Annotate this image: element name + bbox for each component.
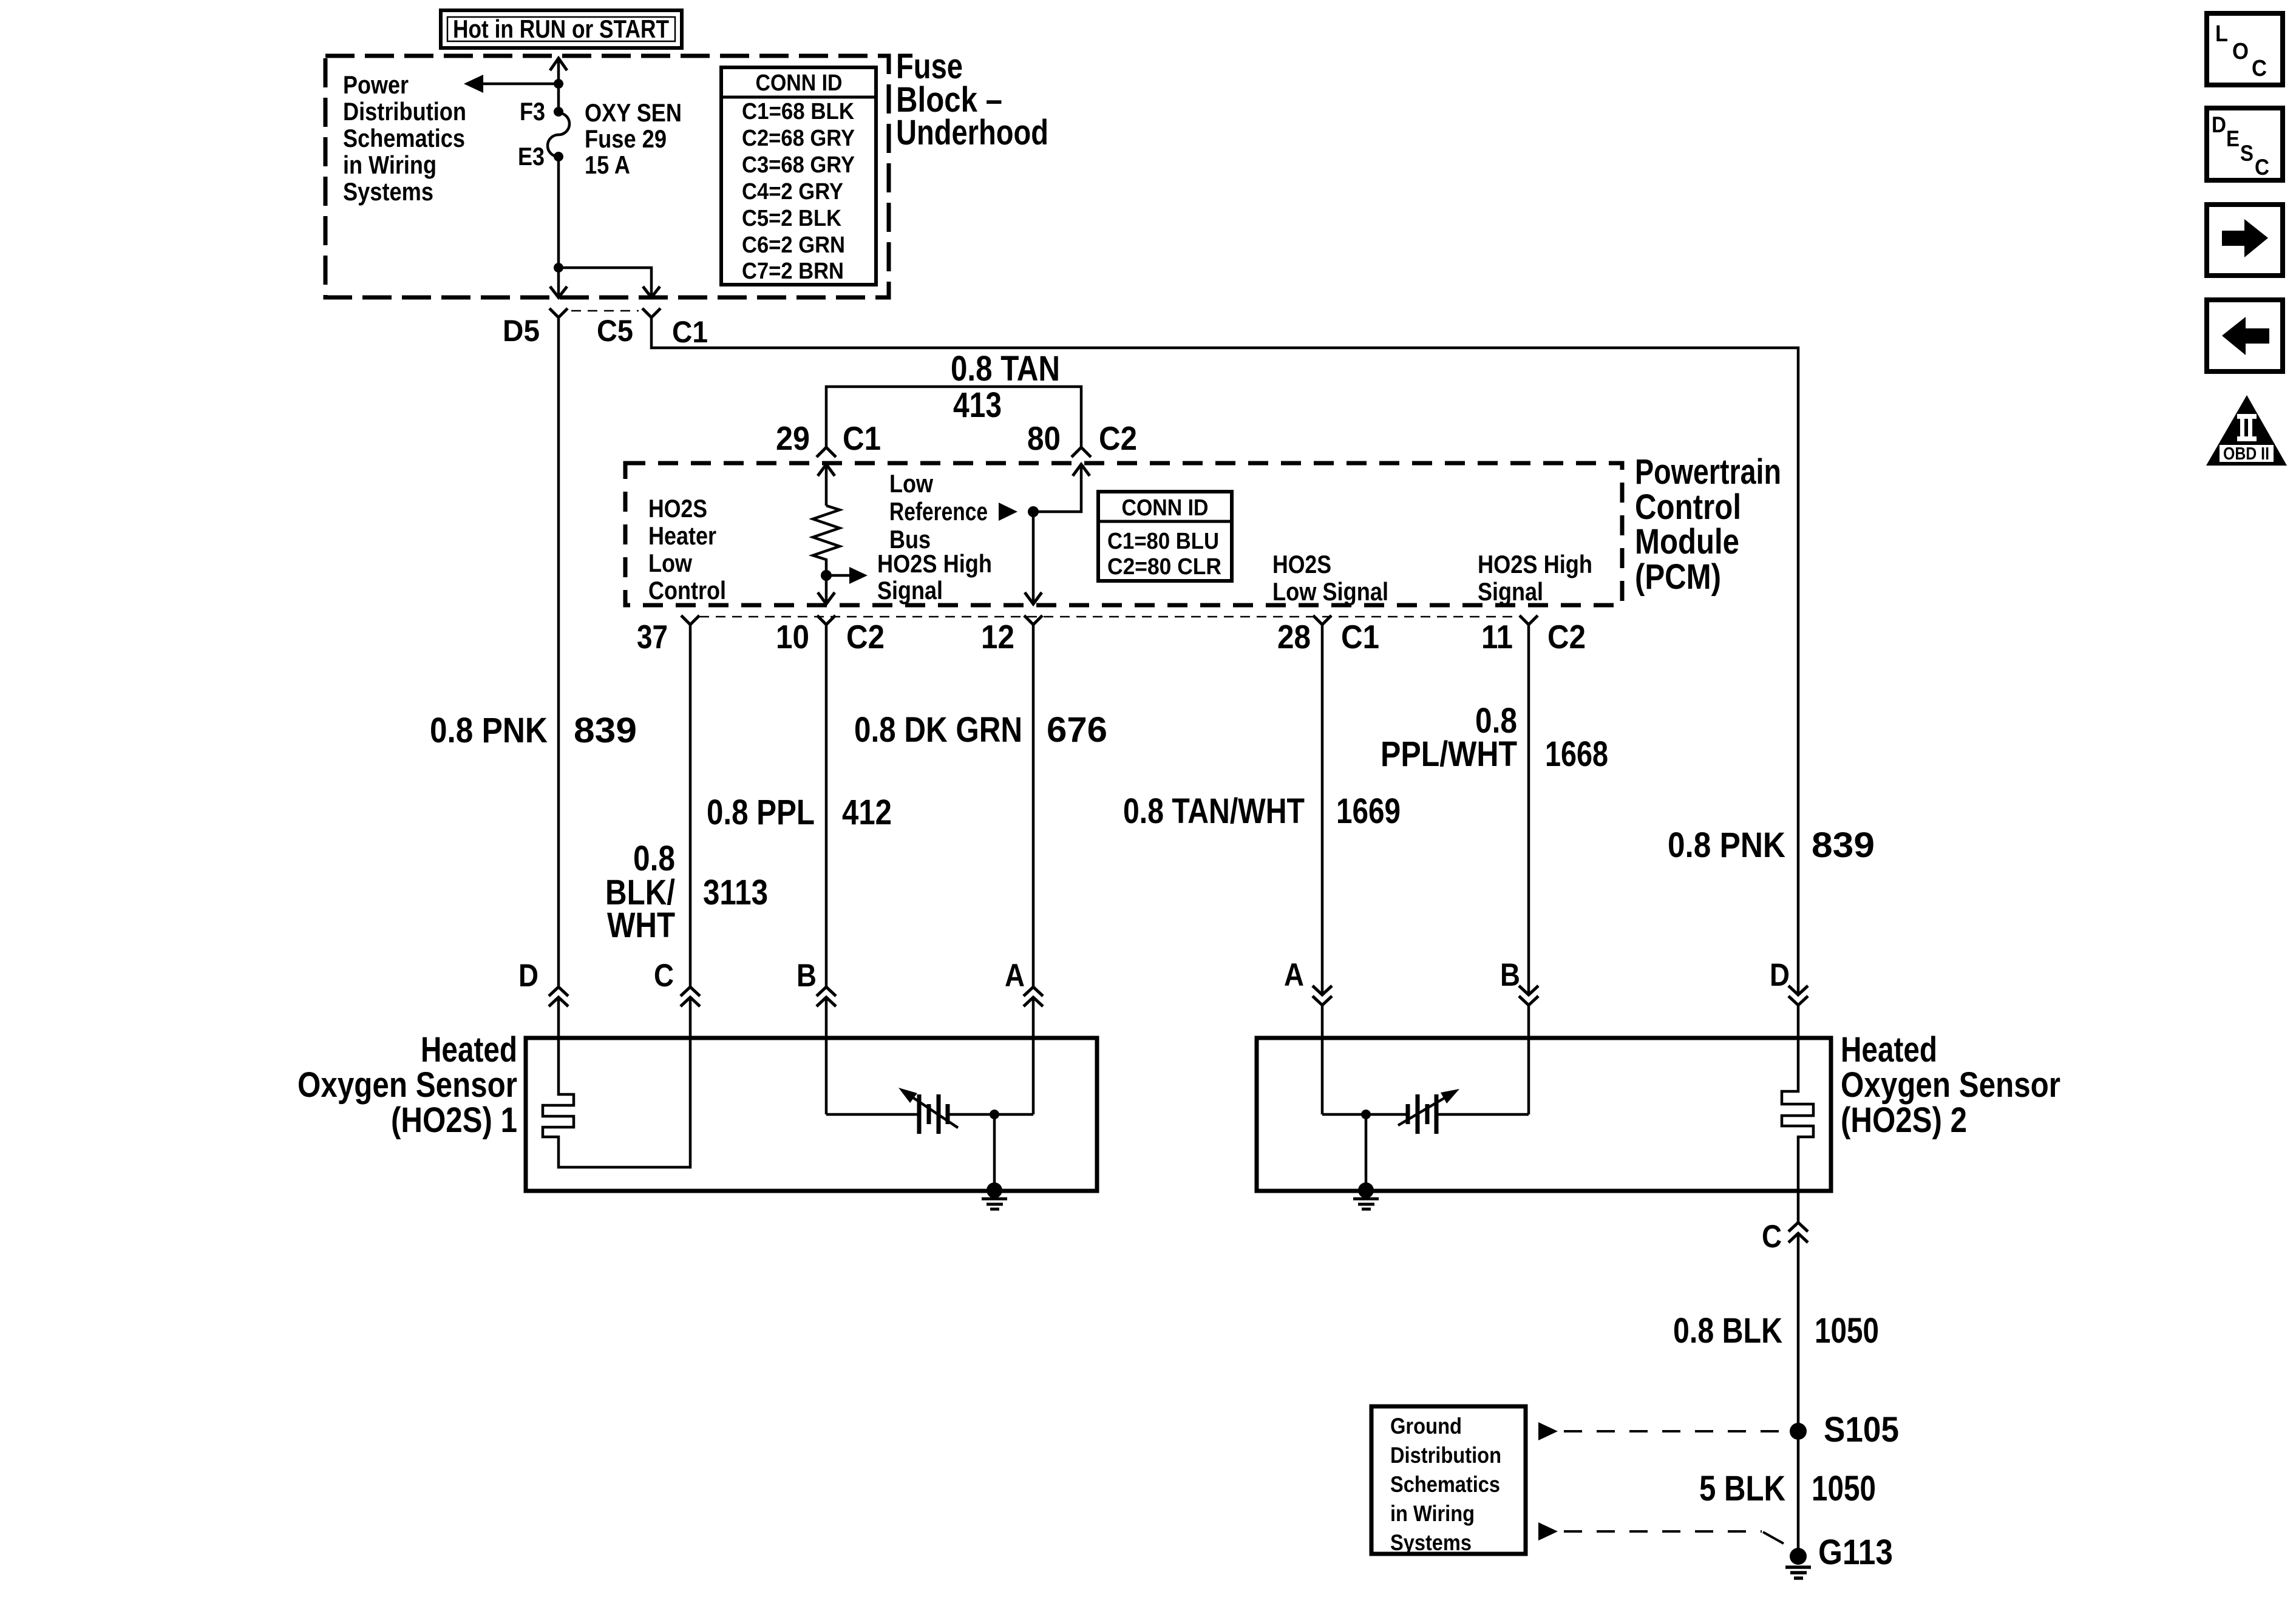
inline connector D (HO2S1)	[549, 987, 568, 1038]
svg-text:B: B	[1500, 957, 1520, 993]
wire HO2S2 pin C down	[1797, 1191, 1800, 1222]
svg-text:Systems: Systems	[343, 177, 433, 206]
HO2S 1 box	[526, 1038, 1097, 1191]
svg-text:37: 37	[637, 618, 668, 656]
svg-text:1050: 1050	[1812, 1469, 1876, 1508]
connector pin 12	[1024, 615, 1042, 625]
svg-text:(HO2S) 1: (HO2S) 1	[391, 1100, 517, 1140]
svg-text:Heated: Heated	[1841, 1030, 1937, 1070]
arrow Low Reference Bus	[999, 503, 1017, 521]
dashed link to S105	[1564, 1430, 1788, 1432]
connector D5 (fuse block)	[549, 308, 568, 317]
svg-text:1050: 1050	[1815, 1311, 1879, 1351]
icon arrow right	[2207, 205, 2283, 276]
wire junction to pin 12	[1032, 512, 1035, 604]
wire 0.8 DK GRN 676 (pin 12 to HO2S1 pin A)	[1032, 625, 1035, 987]
inline connector A (HO2S2)	[1313, 986, 1332, 1038]
svg-text:Distribution: Distribution	[343, 97, 466, 126]
svg-text:676: 676	[1047, 710, 1107, 750]
wire resistor to pin 10	[825, 575, 828, 604]
inline connector D (HO2S2)	[1788, 986, 1808, 1038]
svg-text:11: 11	[1481, 618, 1513, 656]
wire junction to pin 80	[1033, 464, 1081, 512]
arrow left to power distribution	[464, 75, 483, 93]
arrow up to Hot in RUN feed	[550, 58, 567, 70]
ground (HO2S2)	[1353, 1182, 1379, 1209]
svg-text:CONN ID: CONN ID	[1122, 495, 1209, 521]
svg-text:C: C	[654, 958, 674, 994]
fuse F29 OXY SEN 15A (S-curve)	[548, 113, 569, 157]
HO2S 2 box	[1257, 1038, 1831, 1191]
wire 0.8 PPL 412 (pin 10 to HO2S1 pin B)	[825, 625, 828, 987]
junction sensing element (HO2S2)	[1361, 1110, 1371, 1119]
junction at resistor bottom	[821, 570, 832, 581]
connector pin 11 C2	[1520, 615, 1538, 625]
svg-text:Powertrain: Powertrain	[1635, 452, 1781, 492]
variable arrow (HO2S2)	[1398, 1089, 1459, 1125]
svg-text:D5: D5	[503, 314, 540, 348]
svg-text:0.8 DK GRN: 0.8 DK GRN	[854, 710, 1022, 750]
arrow into PCM at pin 29	[818, 464, 835, 506]
svg-text:80: 80	[1027, 419, 1061, 457]
svg-text:HO2S: HO2S	[648, 494, 707, 523]
wire 0.8 PPL/WHT 1668 (pin 11 to HO2S2 pin B)	[1527, 625, 1530, 995]
terminal F3	[554, 107, 563, 117]
connector pin 28 C1	[1313, 615, 1331, 625]
node low reference junction	[1028, 506, 1039, 517]
inline connector C (HO2S2)	[1788, 1222, 1808, 1242]
splice S105	[1790, 1423, 1807, 1440]
svg-text:C1: C1	[672, 315, 708, 349]
svg-text:E3: E3	[518, 142, 545, 171]
svg-text:10: 10	[776, 618, 809, 656]
svg-text:C5=2 BLK: C5=2 BLK	[742, 206, 842, 231]
svg-text:C: C	[2252, 56, 2267, 81]
svg-text:Signal: Signal	[877, 576, 943, 605]
svg-text:C3=68 GRY: C3=68 GRY	[742, 152, 855, 178]
label 0.8 BLK/ WHT	[605, 839, 675, 945]
svg-text:12: 12	[981, 618, 1014, 656]
svg-text:Oxygen Sensor: Oxygen Sensor	[297, 1065, 517, 1105]
svg-text:HO2S: HO2S	[1272, 550, 1331, 578]
junction sensing element (HO2S1)	[990, 1110, 999, 1119]
svg-text:D: D	[518, 958, 538, 994]
svg-text:Heater: Heater	[648, 521, 716, 550]
label 0.8 PPL/WHT	[1381, 701, 1517, 774]
connector at pin 80 C2	[1072, 447, 1091, 457]
svg-text:Schematics: Schematics	[1390, 1472, 1500, 1497]
svg-text:OXY SEN: OXY SEN	[585, 98, 682, 127]
svg-text:D: D	[1770, 957, 1790, 993]
terminal E3	[554, 152, 563, 161]
inline connector B (HO2S1)	[817, 987, 836, 1038]
arrow into D5	[550, 286, 567, 297]
wire 0.8 PNK 839 right (C1 to HO2S 2 pin D)	[651, 317, 1798, 995]
sensing element plates (HO2S1)	[919, 1094, 948, 1134]
svg-text:28: 28	[1277, 618, 1311, 656]
svg-text:PPL/WHT: PPL/WHT	[1381, 734, 1517, 774]
wire loop 0.8 TAN 413 (pin 29 C1 to pin 80 C2)	[826, 387, 1081, 447]
svg-text:S: S	[2240, 141, 2254, 166]
wire to power distribution arrow	[483, 83, 559, 86]
dashed link bend to G113	[1763, 1532, 1784, 1544]
label Fuse Block - Underhood	[896, 47, 1048, 152]
svg-text:Hot in RUN or START: Hot in RUN or START	[453, 15, 669, 43]
svg-text:in Wiring: in Wiring	[1390, 1501, 1475, 1526]
svg-text:0.8 PPL: 0.8 PPL	[707, 793, 815, 832]
svg-text:C7=2 BRN: C7=2 BRN	[742, 259, 844, 284]
svg-text:Underhood: Underhood	[896, 113, 1048, 152]
connector face dashed line under PCM	[699, 616, 1520, 618]
svg-text:(HO2S) 2: (HO2S) 2	[1841, 1100, 1967, 1140]
label Heated Oxygen Sensor (HO2S) 2	[1841, 1030, 2060, 1140]
svg-text:A: A	[1284, 957, 1304, 993]
svg-text:5 BLK: 5 BLK	[1699, 1469, 1785, 1508]
svg-text:839: 839	[1812, 825, 1875, 865]
label Ground Distribution Schematics in Wiring Systems	[1390, 1414, 1501, 1555]
svg-text:B: B	[796, 958, 817, 994]
svg-text:C2: C2	[846, 618, 885, 656]
svg-text:Bus: Bus	[889, 525, 931, 554]
label HO2S Low Signal	[1272, 550, 1388, 606]
wire from feed down to branch junction	[557, 58, 560, 112]
svg-text:(PCM): (PCM)	[1635, 557, 1721, 597]
svg-text:1668: 1668	[1545, 734, 1608, 774]
svg-text:L: L	[2215, 21, 2228, 47]
svg-text:C: C	[2255, 155, 2269, 180]
wire to ground (HO2S1)	[993, 1114, 996, 1190]
svg-text:Signal: Signal	[1478, 577, 1543, 606]
svg-text:839: 839	[574, 711, 637, 750]
svg-text:D: D	[2212, 112, 2226, 137]
arrow to G113	[1538, 1522, 1558, 1541]
svg-text:G113: G113	[1818, 1533, 1893, 1572]
dashed link to G113	[1564, 1530, 1762, 1533]
svg-text:Fuse 29: Fuse 29	[585, 124, 667, 153]
arrow HO2S High Signal (internal)	[826, 567, 868, 584]
svg-text:Oxygen Sensor: Oxygen Sensor	[1841, 1065, 2060, 1105]
icon arrow left	[2207, 300, 2283, 371]
wire 0.8 BLK 1050 (to S105)	[1797, 1233, 1800, 1431]
label HO2S Heater Low Control	[648, 494, 726, 605]
svg-text:0.8 PNK: 0.8 PNK	[1668, 825, 1785, 865]
sensing element wires (HO2S2)	[1322, 1038, 1529, 1114]
heater element (HO2S1)	[543, 1038, 690, 1167]
wire stub D5	[557, 268, 560, 297]
svg-text:C2=80 CLR: C2=80 CLR	[1107, 554, 1221, 580]
svg-text:0.8 PNK: 0.8 PNK	[430, 711, 548, 750]
svg-text:Reference: Reference	[889, 497, 988, 526]
wire 5 BLK 1050 (S105 to G113)	[1797, 1431, 1800, 1556]
svg-text:HO2S High: HO2S High	[877, 549, 992, 578]
svg-text:C2=68 GRY: C2=68 GRY	[742, 126, 855, 151]
svg-text:in Wiring: in Wiring	[343, 151, 436, 179]
fuse block dashed box (Fuse Block - Underhood)	[325, 56, 889, 297]
power label box "Hot in RUN or START"	[441, 10, 682, 48]
label OXY SEN Fuse 29 15 A	[585, 98, 682, 179]
arrow to S105	[1538, 1422, 1558, 1440]
svg-text:15 A: 15 A	[585, 151, 630, 179]
svg-text:HO2S High: HO2S High	[1478, 550, 1592, 578]
variable arrow (HO2S1)	[898, 1088, 958, 1128]
svg-text:OBD II: OBD II	[2223, 444, 2269, 464]
svg-text:Systems: Systems	[1390, 1530, 1472, 1555]
connector face dashed line D5-C1	[571, 310, 639, 312]
svg-text:C1: C1	[843, 419, 881, 457]
svg-text:412: 412	[842, 793, 892, 832]
svg-text:WHT: WHT	[607, 906, 675, 945]
svg-text:Control: Control	[648, 576, 726, 605]
svg-text:0.8 TAN: 0.8 TAN	[951, 349, 1060, 388]
inline connector B (HO2S2)	[1519, 986, 1538, 1038]
sensing element wires (HO2S1)	[826, 1038, 1033, 1114]
label HO2S High Signal (right)	[1478, 550, 1592, 606]
wire 0.8 TAN/WHT 1669 (pin 28 to HO2S2 pin A)	[1321, 625, 1324, 995]
ground distribution note box	[1371, 1406, 1526, 1554]
wire 0.8 BLK/WHT 3113 (pin 37 to HO2S1 pin C)	[689, 625, 692, 987]
connector C1 (fuse block)	[642, 308, 661, 317]
svg-text:Module: Module	[1635, 522, 1739, 561]
svg-text:C4=2 GRY: C4=2 GRY	[742, 179, 843, 205]
label HO2S High Signal (internal)	[877, 549, 992, 605]
junction at feed	[554, 79, 563, 89]
svg-text:S105: S105	[1824, 1410, 1899, 1449]
svg-text:Low: Low	[648, 549, 692, 577]
CONN ID table (fuse block)	[721, 67, 876, 285]
ground G113	[1785, 1548, 1811, 1578]
junction to C1 branch	[554, 263, 563, 273]
label Heated Oxygen Sensor (HO2S) 1	[297, 1030, 517, 1140]
svg-text:O: O	[2232, 39, 2249, 64]
svg-text:3113: 3113	[703, 873, 768, 912]
connector pin 37	[681, 615, 699, 625]
arrow to pin 12	[1025, 592, 1042, 604]
svg-text:Low: Low	[889, 469, 933, 498]
svg-text:Ground: Ground	[1390, 1414, 1462, 1439]
note text Power Distribution Schematics in Wiring Systems	[343, 70, 466, 206]
CONN ID table (PCM)	[1098, 492, 1232, 581]
svg-text:Distribution: Distribution	[1390, 1443, 1501, 1468]
svg-text:29: 29	[776, 419, 810, 457]
svg-text:F3: F3	[520, 97, 545, 126]
wire 0.8 PNK 839 left (D5 to HO2S 1 pin D)	[557, 317, 560, 987]
svg-text:Low Signal: Low Signal	[1272, 577, 1388, 606]
svg-text:0.8 TAN/WHT: 0.8 TAN/WHT	[1123, 792, 1305, 831]
label Low Reference Bus	[889, 469, 988, 554]
svg-text:C1: C1	[1341, 618, 1379, 656]
svg-text:C1=80 BLU: C1=80 BLU	[1107, 529, 1219, 554]
connector pin 10 C2	[817, 615, 835, 625]
ground (HO2S1)	[982, 1182, 1007, 1209]
icon DESC	[2207, 108, 2283, 180]
PCM dashed box (Powertrain Control Module)	[625, 463, 1622, 605]
svg-text:E: E	[2226, 126, 2240, 151]
inline connector C (HO2S1)	[681, 987, 700, 1038]
svg-text:1669: 1669	[1336, 792, 1401, 831]
svg-text:C6=2 GRN: C6=2 GRN	[742, 232, 845, 258]
svg-text:C1=68 BLK: C1=68 BLK	[742, 99, 854, 124]
svg-text:C5: C5	[597, 314, 633, 348]
svg-text:Schematics: Schematics	[343, 124, 465, 152]
resistor (HO2S heater bias)	[813, 506, 840, 575]
arrow to pin 10	[818, 592, 835, 604]
svg-text:C: C	[1762, 1219, 1782, 1255]
svg-text:Control: Control	[1635, 487, 1741, 527]
svg-text:CONN ID: CONN ID	[756, 70, 843, 96]
svg-text:Power: Power	[343, 70, 409, 99]
svg-text:C2: C2	[1099, 419, 1137, 457]
svg-text:Heated: Heated	[421, 1030, 517, 1070]
arrow into PCM at pin 80	[1073, 464, 1090, 476]
icon LOC	[2207, 13, 2283, 85]
wire to ground (HO2S2)	[1365, 1114, 1368, 1190]
svg-text:0.8 BLK: 0.8 BLK	[1673, 1311, 1782, 1351]
arrow into C1	[643, 286, 660, 297]
heater element (HO2S2)	[1782, 1038, 1813, 1191]
icon OBD II	[2206, 395, 2287, 466]
inline connector A (HO2S1)	[1024, 987, 1043, 1038]
connector at pin 29 C1	[817, 447, 836, 457]
svg-text:C2: C2	[1547, 618, 1586, 656]
svg-text:A: A	[1005, 958, 1025, 994]
label Powertrain Control Module (PCM)	[1635, 452, 1781, 597]
sensing element plates (HO2S2)	[1408, 1094, 1436, 1134]
wire branch to C1	[559, 268, 651, 297]
svg-text:413: 413	[953, 385, 1002, 425]
